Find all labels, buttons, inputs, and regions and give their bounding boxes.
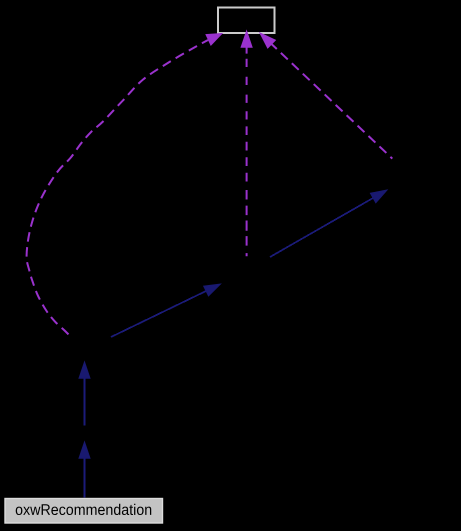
arrowhead blue lower — [79, 442, 90, 458]
wire blue diagonal node1 to node3 — [111, 291, 206, 337]
arrowhead purple middle — [241, 31, 252, 47]
arrowhead purple right — [260, 33, 275, 48]
node top box — [218, 8, 275, 34]
arrowhead blue diagonal right — [370, 190, 387, 203]
wire blue edge node2 to node1 — [84, 378, 86, 426]
wire purple dashed diagonal node4 to top box — [272, 44, 393, 159]
wire blue diagonal node3 to node4 — [270, 198, 373, 257]
node oxwRecommendation — [5, 499, 163, 524]
wire purple dashed vertical node3 to top box — [246, 47, 248, 256]
wire purple dashed curve node1 to top box — [27, 40, 208, 338]
arrowhead blue upper — [79, 362, 90, 378]
arrowhead blue diagonal mid — [204, 284, 221, 296]
arrowhead purple left — [206, 34, 222, 46]
wire blue edge oxwRecommendation to node2 — [84, 458, 86, 498]
